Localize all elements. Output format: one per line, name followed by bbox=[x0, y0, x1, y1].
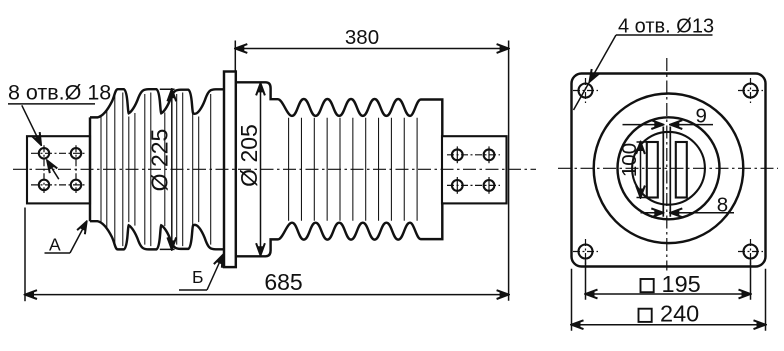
note 4 otv. D13: leader arrow through top-left hole bbox=[590, 35, 616, 82]
svg-text:195: 195 bbox=[662, 271, 701, 297]
left terminal pad plate bbox=[27, 136, 90, 203]
svg-text:8: 8 bbox=[717, 193, 728, 216]
svg-text:8 отв.Ø 18: 8 отв.Ø 18 bbox=[8, 81, 111, 105]
left pad hole 1 (otv. 18) bbox=[39, 148, 49, 158]
dimension square-240: dimension line with arrows bbox=[572, 324, 766, 326]
centerline: main horizontal axis of side view bbox=[13, 168, 536, 170]
dimension 9 (slot width top): arrow lines bbox=[623, 124, 664, 126]
right pad hole 2 bbox=[484, 146, 495, 163]
right pad hole row centerlines bbox=[447, 155, 500, 186]
dimension 685: dimension line with arrows bbox=[25, 294, 509, 296]
flange B (mounting flange plate) bbox=[224, 72, 236, 268]
label A: underline bbox=[45, 252, 71, 254]
central contact slot edges bbox=[663, 127, 670, 217]
bellows contour generatrix lines bbox=[289, 118, 418, 221]
svg-text:Ø 225: Ø 225 bbox=[147, 129, 173, 192]
label B: underline bbox=[179, 289, 207, 291]
svg-text:4 отв. Ø13: 4 отв. Ø13 bbox=[618, 16, 714, 38]
insulator body left edge bbox=[89, 117, 91, 221]
label B: leader arrow bbox=[207, 255, 223, 290]
right view: vertical centerline bbox=[666, 58, 668, 271]
right pad hole 1 bbox=[452, 146, 463, 163]
right view: bottom-right mounting hole (otv. 13) bbox=[738, 239, 763, 264]
note 8 otv. D18: leader arrow to upper hole bbox=[22, 105, 41, 145]
cylinder and corrugated bellows profile top bbox=[236, 82, 442, 136]
dimension square-240: extension lines bbox=[572, 269, 766, 331]
dimension square-195: dimension line with arrows bbox=[586, 293, 751, 295]
dimension 685: extension line left bbox=[24, 208, 26, 302]
right view: horizontal centerline bbox=[558, 167, 778, 169]
dimension 100: vertical dimension line with arrows bbox=[640, 142, 642, 198]
dimension D225: vertical dimension line with arrows bbox=[171, 89, 173, 249]
svg-text:100: 100 bbox=[618, 143, 641, 177]
note 8 otv. D18: leader arrow to lower hole bbox=[47, 161, 59, 180]
right view: middle shed circle bbox=[618, 117, 720, 219]
conductor bar left bbox=[647, 142, 658, 198]
left pad hole 2 (otv. 18) bbox=[71, 148, 81, 158]
dimension 380: dimension line with arrows bbox=[235, 48, 508, 50]
conductor bar right bbox=[676, 142, 687, 198]
right terminal pad plate bbox=[442, 136, 507, 203]
cylinder and corrugated bellows profile bottom (mirror) bbox=[236, 202, 442, 256]
svg-text:Ø 205: Ø 205 bbox=[236, 124, 262, 187]
svg-text:А: А bbox=[49, 235, 61, 255]
dimension D205: vertical dimension line with arrows bbox=[260, 83, 262, 255]
label A: leader arrow bbox=[70, 222, 87, 253]
dimension 8 (slot width bottom): arrow lines bbox=[641, 212, 664, 214]
left pad hole row centerlines bbox=[31, 153, 86, 185]
note 4 otv. D13: underline bbox=[616, 34, 713, 36]
insulator shed profile top (section A ribs) bbox=[90, 89, 224, 117]
right view: top-left mounting hole (otv. 13) bbox=[573, 78, 598, 103]
right view: outer shed circle bbox=[594, 94, 744, 244]
dimension 380: extension lines bbox=[235, 41, 508, 301]
svg-text:9: 9 bbox=[696, 104, 707, 127]
rib contour generatrix lines, left section bbox=[100, 116, 102, 223]
right view: square flange plate with rounded corners bbox=[572, 74, 766, 267]
right view: bottom-left mounting hole (otv. 13) bbox=[573, 239, 598, 264]
dimension square-195: extension lines bbox=[586, 260, 751, 300]
right pad hole 4 bbox=[484, 177, 495, 194]
right pad hole 3 bbox=[452, 177, 463, 194]
right view: inner bore circle bbox=[632, 132, 705, 205]
svg-text:Б: Б bbox=[192, 267, 203, 287]
right view: top-right mounting hole (otv. 13) bbox=[738, 78, 763, 103]
dimension 100: extension lines bbox=[637, 142, 650, 198]
note 8 otv. D18: underline bbox=[8, 103, 95, 105]
left pad hole column centerlines bbox=[44, 145, 76, 193]
dimension D225: extension ticks bbox=[160, 89, 175, 249]
svg-text:685: 685 bbox=[264, 269, 302, 295]
left pad hole 3 (otv. 18) bbox=[39, 180, 49, 190]
insulator shed profile bottom (mirror) bbox=[90, 221, 224, 249]
left pad hole 4 (otv. 18) bbox=[71, 180, 81, 190]
svg-text:380: 380 bbox=[345, 26, 379, 49]
svg-text:240: 240 bbox=[660, 301, 699, 327]
dimension square-240: square symbol bbox=[639, 309, 652, 322]
dimension square-195: square symbol bbox=[641, 279, 654, 292]
